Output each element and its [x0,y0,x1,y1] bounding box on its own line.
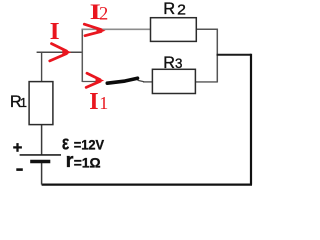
svg-text:=1Ω: =1Ω [74,154,101,170]
svg-text:r: r [66,150,74,172]
svg-text:1: 1 [99,93,108,113]
svg-text:I: I [50,19,60,45]
svg-text:1: 1 [20,95,27,110]
svg-text:R: R [163,54,175,72]
svg-text:=12V: =12V [74,136,105,152]
svg-text:I: I [89,89,98,115]
svg-text:2: 2 [99,5,108,25]
svg-text:R: R [163,0,175,18]
svg-text:3: 3 [175,56,182,71]
svg-text:2: 2 [177,2,186,18]
